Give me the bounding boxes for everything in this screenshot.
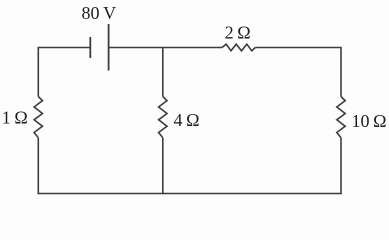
resistor 1ohm zigzag xyxy=(34,97,42,138)
wire top-middle horizontal xyxy=(109,47,222,49)
svg-text:1 Ω: 1 Ω xyxy=(2,108,28,128)
wire right vertical lower xyxy=(340,138,342,194)
svg-text:2 Ω: 2 Ω xyxy=(225,22,251,42)
resistor 2ohm zigzag xyxy=(222,44,255,51)
battery V1 short plate (negative) xyxy=(89,37,91,58)
wire left vertical upper xyxy=(37,48,39,97)
svg-text:4 Ω: 4 Ω xyxy=(174,110,200,130)
wire bottom horizontal xyxy=(38,193,342,195)
wire right vertical upper xyxy=(340,48,342,97)
wire middle vertical lower xyxy=(162,138,164,194)
battery V1 long plate (positive) xyxy=(108,24,110,71)
wire left vertical lower xyxy=(37,138,39,194)
wire middle vertical upper xyxy=(162,48,164,97)
wire top-left horizontal xyxy=(38,47,91,49)
svg-text:10 Ω: 10 Ω xyxy=(352,111,387,131)
resistor 4ohm zigzag xyxy=(159,97,167,138)
resistor 10ohm zigzag xyxy=(337,97,345,138)
svg-text:80 V: 80 V xyxy=(82,3,117,23)
wire top-right horizontal xyxy=(255,47,341,49)
